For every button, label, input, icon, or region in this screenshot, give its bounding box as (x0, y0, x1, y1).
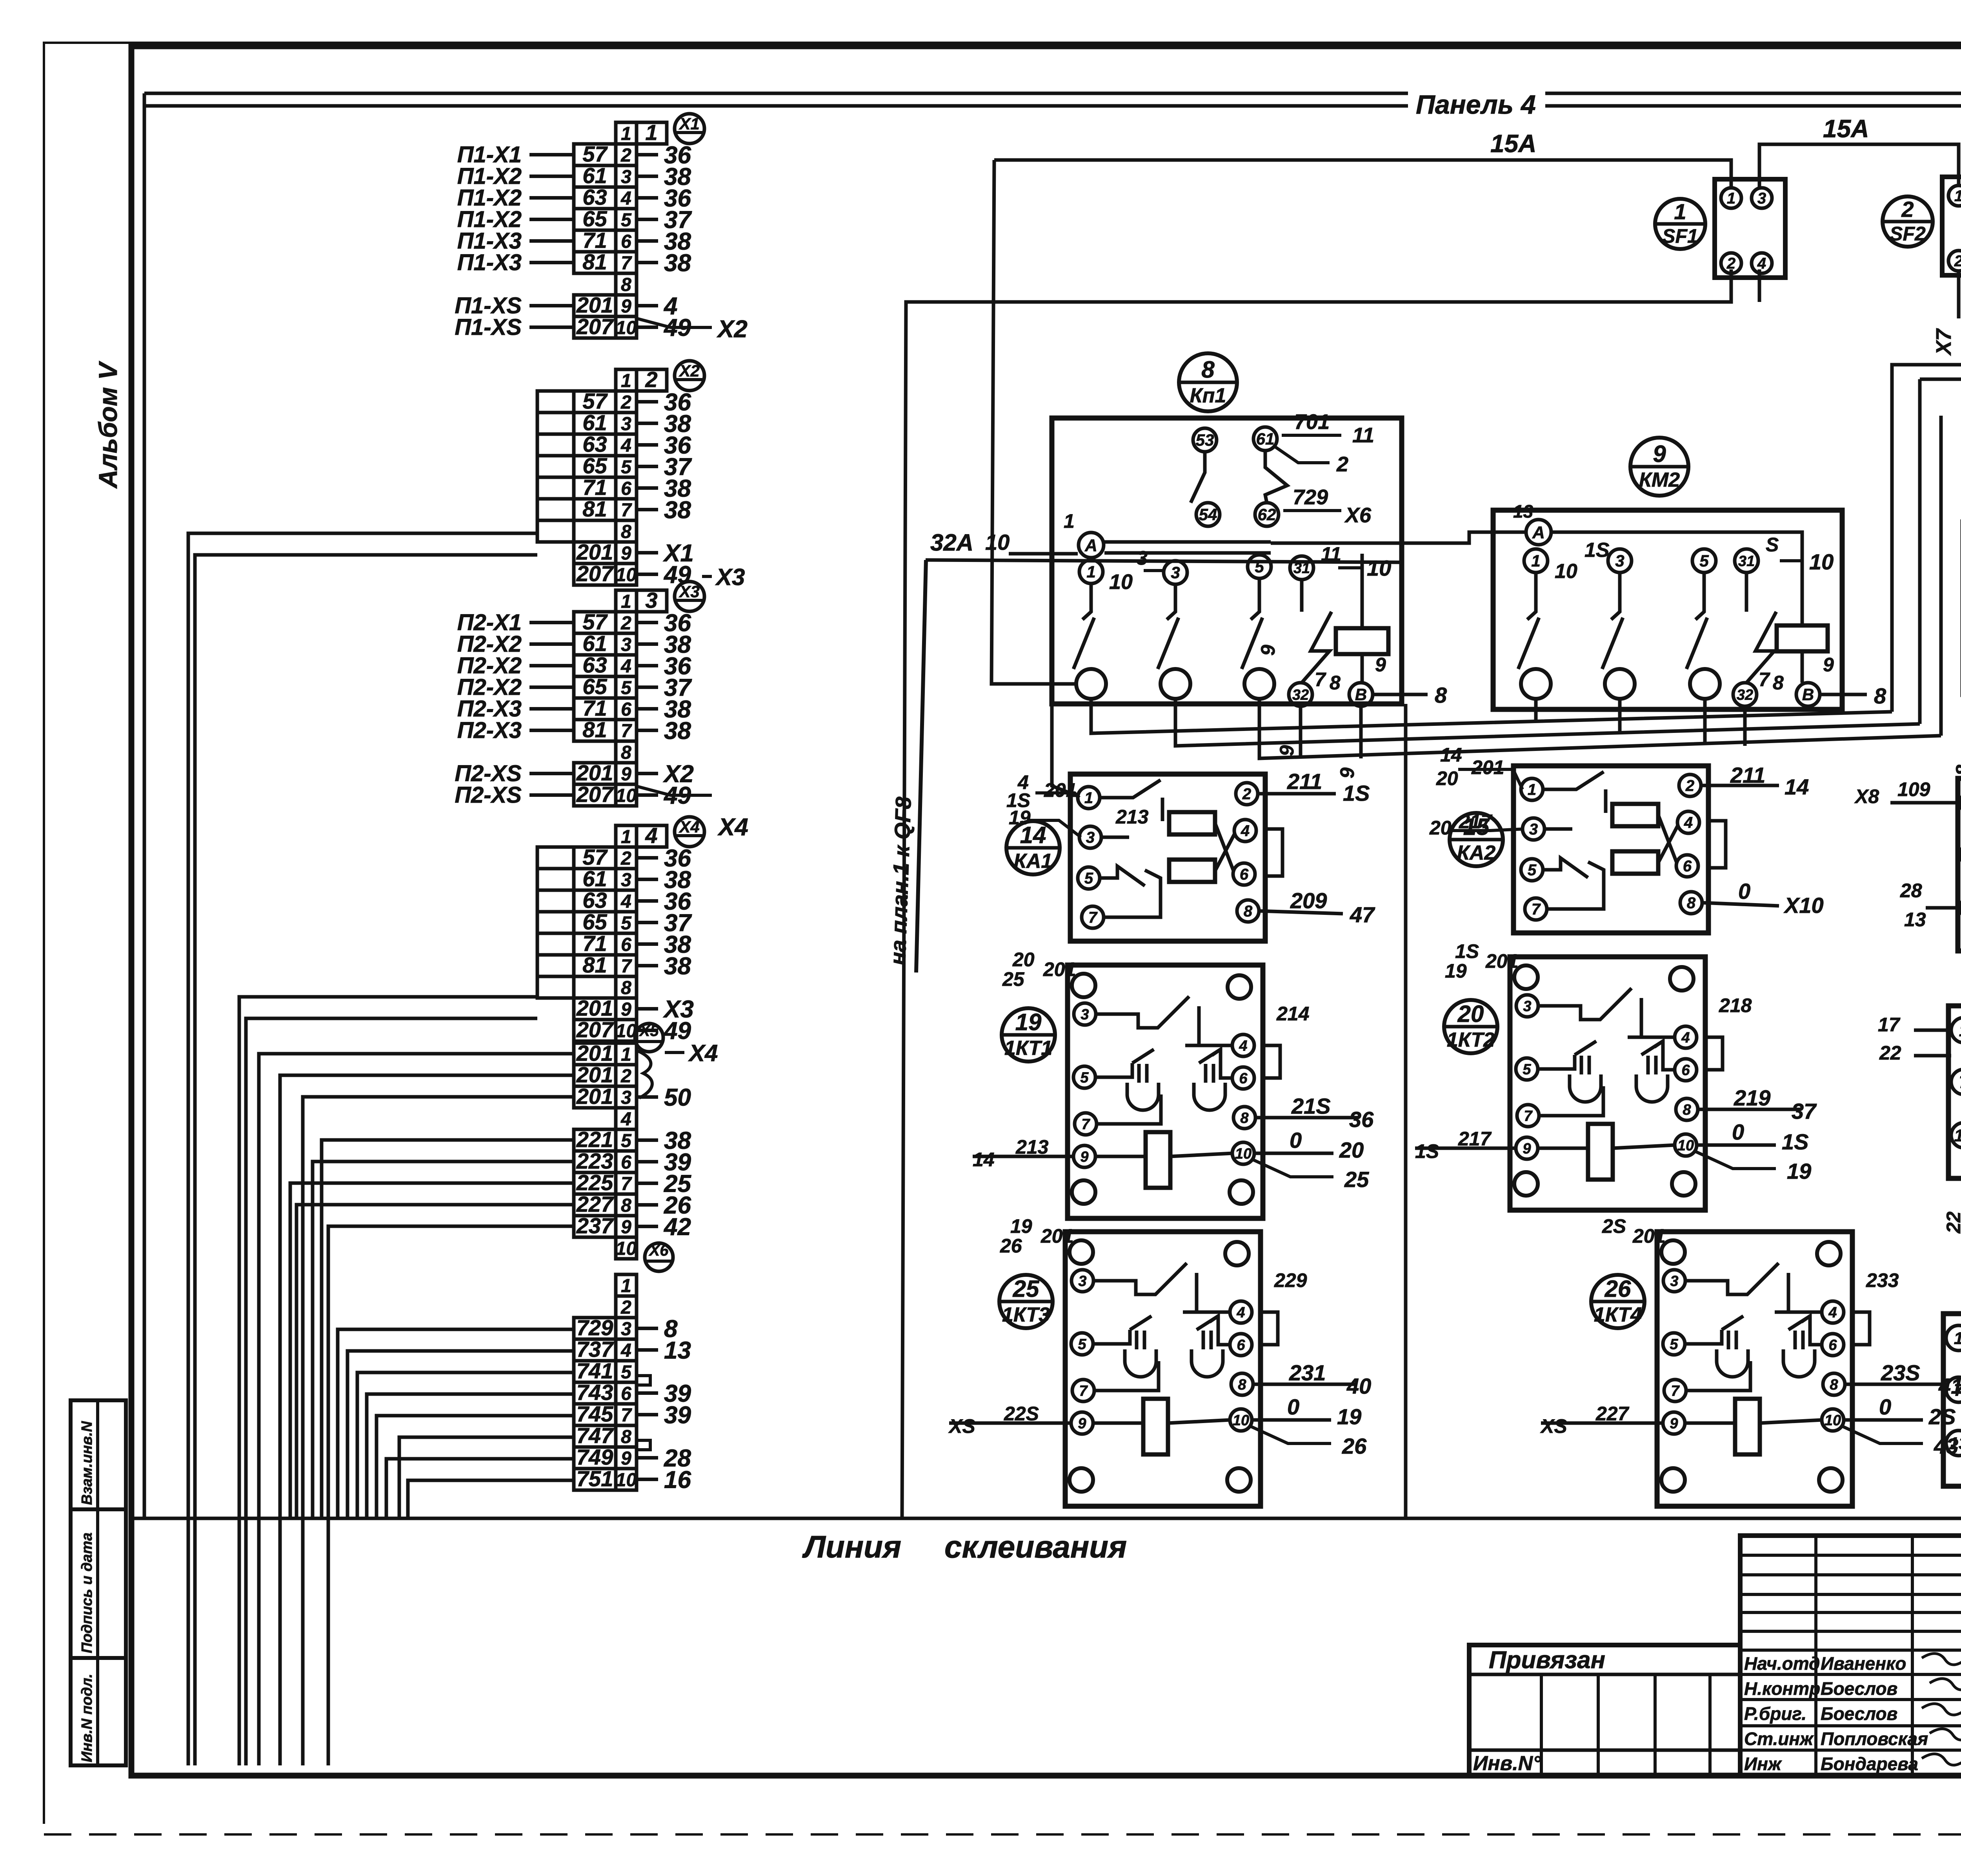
svg-text:3: 3 (621, 1319, 631, 1340)
svg-text:КМ2: КМ2 (1639, 469, 1680, 491)
svg-text:X2: X2 (717, 316, 748, 343)
svg-text:201: 201 (1471, 756, 1504, 778)
svg-text:3: 3 (1081, 1006, 1089, 1023)
svg-text:5: 5 (621, 1362, 632, 1383)
svg-text:14: 14 (973, 1149, 995, 1171)
wire KM2 bottom drop 1 (1534, 699, 1538, 722)
1KT3 external labels (948, 1215, 1371, 1458)
svg-text:13: 13 (1949, 1434, 1961, 1453)
svg-text:10: 10 (616, 1238, 637, 1259)
svg-text:5: 5 (621, 913, 632, 934)
svg-text:6: 6 (621, 478, 631, 499)
KM1 node A (1079, 533, 1104, 558)
wire X6 row4 (347, 1351, 574, 1518)
svg-text:3: 3 (1086, 829, 1095, 846)
svg-text:8: 8 (1874, 684, 1886, 708)
svg-text:X4: X4 (717, 814, 748, 841)
svg-text:63: 63 (582, 432, 607, 456)
svg-text:5: 5 (621, 457, 632, 478)
designator circle 20/1КТ2 (1444, 1000, 1497, 1053)
svg-text:3: 3 (1137, 547, 1148, 569)
wire 1KT1 pin9 feed (973, 1155, 1073, 1158)
svg-text:Кп1: Кп1 (1190, 384, 1226, 407)
svg-text:Боеслов: Боеслов (1821, 1678, 1897, 1699)
svg-text:2: 2 (620, 392, 631, 413)
svg-text:65: 65 (582, 453, 607, 478)
svg-text:9: 9 (621, 1217, 631, 1238)
svg-text:8: 8 (621, 978, 631, 998)
svg-text:1КТ1: 1КТ1 (1004, 1037, 1052, 1060)
svg-text:XS: XS (948, 1415, 975, 1437)
svg-text:7: 7 (1524, 1108, 1533, 1124)
svg-text:201: 201 (576, 996, 613, 1020)
svg-text:3: 3 (645, 588, 657, 613)
svg-text:751: 751 (577, 1466, 613, 1491)
svg-text:9: 9 (621, 296, 631, 317)
svg-text:1: 1 (621, 371, 631, 391)
svg-text:15А: 15А (1823, 115, 1869, 143)
KM2 coil (1777, 625, 1828, 651)
svg-text:81: 81 (582, 717, 607, 742)
X3 row9 branch to X4 (637, 786, 712, 795)
wire bus X2 bracket lower (195, 555, 537, 1765)
svg-text:4: 4 (1684, 814, 1693, 831)
wire X5 row7 (290, 1183, 574, 1518)
wire X5 row6 (313, 1162, 574, 1518)
svg-text:0: 0 (1738, 879, 1750, 903)
svg-text:КА2: КА2 (1457, 842, 1496, 864)
svg-text:13: 13 (1904, 909, 1926, 931)
svg-text:701: 701 (1294, 410, 1330, 434)
svg-text:7: 7 (1959, 1073, 1961, 1092)
svg-text:8: 8 (1952, 765, 1961, 776)
svg-text:1: 1 (1674, 199, 1686, 224)
svg-text:3: 3 (621, 870, 631, 891)
svg-text:8: 8 (1773, 672, 1784, 694)
svg-text:10: 10 (616, 318, 637, 338)
svg-text:22: 22 (1879, 1042, 1901, 1064)
svg-text:Ст.инж: Ст.инж (1744, 1729, 1814, 1749)
svg-text:8: 8 (1830, 1376, 1838, 1393)
svg-text:8: 8 (1238, 1376, 1246, 1393)
svg-text:1S: 1S (1415, 1140, 1439, 1162)
relay 2-K10 box (1943, 1314, 1961, 1486)
svg-text:1: 1 (621, 1276, 631, 1296)
svg-text:10: 10 (616, 565, 637, 585)
wire SF1 bottom long drop (902, 269, 1731, 1518)
svg-text:Панель 4: Панель 4 (1416, 90, 1536, 120)
svg-text:5: 5 (1078, 1336, 1086, 1352)
svg-text:5: 5 (1699, 552, 1709, 570)
svg-text:X4: X4 (679, 818, 699, 836)
svg-text:15А: 15А (1490, 129, 1536, 158)
glue line (линия склеивания) (131, 1517, 1961, 1520)
svg-text:0: 0 (1879, 1394, 1891, 1419)
svg-text:2: 2 (1954, 253, 1961, 270)
wire bus 32A (926, 560, 1400, 562)
svg-text:207: 207 (576, 314, 614, 339)
binding table (Привязан) (1469, 1645, 1740, 1775)
svg-text:25: 25 (1344, 1167, 1369, 1192)
svg-text:71: 71 (582, 228, 607, 253)
svg-text:8: 8 (1201, 356, 1215, 383)
svg-text:201: 201 (576, 540, 613, 564)
svg-text:47: 47 (1350, 902, 1375, 927)
svg-text:1: 1 (1954, 187, 1961, 205)
svg-text:741: 741 (577, 1358, 613, 1383)
svg-text:3: 3 (1757, 190, 1766, 207)
svg-text:65: 65 (582, 206, 607, 231)
svg-text:14: 14 (1440, 744, 1462, 766)
svg-text:1S: 1S (1584, 539, 1610, 562)
KM1 internal bus double (1104, 540, 1271, 544)
svg-text:6: 6 (621, 1383, 631, 1404)
svg-text:X5: X5 (639, 1022, 659, 1040)
wire 2K6 pin1 feed (1914, 1029, 1951, 1032)
svg-text:71: 71 (582, 931, 607, 956)
wire KM1 bottom exit 2 (1175, 699, 1920, 746)
svg-text:71: 71 (582, 475, 607, 500)
svg-text:П1-Х3: П1-Х3 (457, 250, 522, 275)
svg-text:207: 207 (576, 561, 614, 586)
svg-text:1: 1 (1959, 1021, 1961, 1040)
wire 1KT2 pin10 out (1697, 1143, 1776, 1147)
wire X5 row1 (259, 1054, 574, 1765)
svg-text:2: 2 (620, 145, 631, 166)
svg-text:32: 32 (1737, 687, 1753, 703)
svg-text:5: 5 (621, 210, 632, 231)
svg-text:9: 9 (621, 1448, 631, 1469)
wire KA2 pin3 feed (1451, 829, 1524, 831)
svg-text:склеивания: склеивания (944, 1529, 1127, 1564)
svg-text:1: 1 (621, 1044, 631, 1065)
svg-text:20: 20 (1339, 1138, 1364, 1162)
wire KM1 bottom exit 3 (1259, 699, 1941, 758)
svg-text:211: 211 (1287, 769, 1322, 794)
wire KA1 pin8 out (1259, 911, 1343, 914)
svg-text:61: 61 (582, 410, 607, 435)
svg-text:4: 4 (620, 891, 631, 912)
svg-text:16: 16 (664, 1467, 691, 1494)
designator circle 1/SF1 (1655, 199, 1705, 249)
terminal block X4 (574, 817, 704, 1045)
wire 2K1 pin13 feed (1926, 906, 1961, 910)
2K1 labels (1854, 719, 1961, 991)
svg-text:Н.контр: Н.контр (1744, 1678, 1820, 1699)
svg-text:Р.бриг.: Р.бриг. (1744, 1703, 1806, 1724)
svg-text:4: 4 (1681, 1029, 1690, 1046)
svg-text:3: 3 (621, 167, 631, 187)
svg-text:Инв.N°: Инв.N° (1473, 1752, 1541, 1775)
svg-text:1КТ4: 1КТ4 (1594, 1303, 1642, 1326)
wire X6 row3 (338, 1329, 574, 1518)
svg-text:201: 201 (576, 1041, 613, 1065)
svg-text:207: 207 (576, 782, 614, 807)
svg-text:Бондарева: Бондарева (1821, 1754, 1918, 1774)
time relay 1KT1 box (1068, 965, 1280, 1218)
svg-text:7: 7 (1088, 909, 1098, 926)
svg-text:0: 0 (1287, 1394, 1299, 1419)
wire X5 row5 (322, 1140, 574, 1518)
svg-text:61: 61 (582, 866, 607, 891)
svg-text:5: 5 (621, 1131, 632, 1151)
wire 2K6 pin2 feed (1914, 1054, 1951, 1058)
svg-text:57: 57 (582, 609, 608, 634)
svg-text:X4: X4 (688, 1040, 718, 1066)
svg-text:Иваненко: Иваненко (1821, 1653, 1906, 1674)
svg-text:38: 38 (664, 497, 691, 524)
KM1 coil (1336, 628, 1388, 654)
svg-text:П2-Х3: П2-Х3 (457, 718, 522, 743)
svg-text:1: 1 (1528, 781, 1536, 798)
svg-text:5: 5 (1528, 862, 1537, 879)
svg-text:19: 19 (1337, 1404, 1361, 1429)
svg-text:743: 743 (577, 1380, 613, 1405)
wire 1KT4 pin10 branch (1842, 1426, 1923, 1443)
panel boundary top outer (144, 92, 1961, 95)
svg-text:20: 20 (1429, 817, 1452, 839)
designator circle 2/SF2 (1883, 196, 1933, 247)
svg-text:81: 81 (582, 496, 607, 521)
wire KM1 B down (1359, 706, 1363, 758)
svg-text:38: 38 (664, 250, 691, 277)
svg-text:Боеслов: Боеслов (1821, 1703, 1897, 1724)
wire mid drop to glue line A (1404, 704, 1408, 1518)
svg-text:2: 2 (1901, 197, 1914, 222)
KM2 pole 5 (1692, 549, 1716, 573)
svg-text:201: 201 (576, 760, 613, 785)
svg-text:X10: X10 (1783, 893, 1824, 918)
svg-text:4: 4 (620, 656, 631, 677)
svg-text:1S: 1S (1343, 781, 1370, 805)
wire X6 row8 (399, 1437, 574, 1518)
svg-text:26: 26 (1000, 1235, 1022, 1257)
wire 1KT3 pin10 out (1252, 1418, 1331, 1422)
1KT4 external labels (1540, 1215, 1961, 1458)
svg-text:4: 4 (1828, 1304, 1837, 1321)
svg-text:A: A (1084, 536, 1097, 555)
svg-text:53: 53 (1196, 431, 1214, 449)
svg-text:0: 0 (1732, 1120, 1744, 1144)
svg-text:9: 9 (621, 999, 631, 1020)
svg-text:54: 54 (1199, 505, 1217, 524)
svg-text:3: 3 (621, 1087, 631, 1108)
svg-text:10: 10 (1109, 570, 1133, 594)
wire riser right A (1918, 379, 1922, 724)
svg-text:19: 19 (1445, 960, 1467, 982)
svg-text:2: 2 (645, 367, 657, 392)
svg-text:1: 1 (621, 591, 631, 612)
svg-text:A: A (1532, 523, 1545, 542)
svg-text:5: 5 (1080, 1069, 1089, 1086)
svg-text:19: 19 (1787, 1159, 1811, 1183)
wire 1KT3 pin9 feed (949, 1422, 1071, 1425)
svg-text:65: 65 (582, 674, 607, 699)
X6 row8 hook (637, 1440, 650, 1450)
wire KM2 pin32 down (1743, 706, 1747, 746)
contactor KM2 box (1493, 510, 1842, 709)
wire X5 row3 (303, 1097, 574, 1765)
svg-text:B: B (1802, 685, 1814, 704)
wire X6 row6 (367, 1394, 574, 1518)
KM2 node A (1526, 520, 1551, 545)
svg-text:71: 71 (582, 696, 607, 720)
svg-text:6: 6 (1240, 866, 1249, 883)
wire KA2 pin1 feed (1458, 769, 1523, 789)
svg-text:7: 7 (1081, 1116, 1090, 1133)
X6 row5 hook (637, 1376, 650, 1385)
relay KA2 box (1513, 766, 1726, 933)
wire bus X4 bracket lower (246, 1018, 537, 1765)
svg-text:2: 2 (1726, 255, 1735, 272)
wire X5 row9 (328, 1226, 574, 1765)
svg-text:221: 221 (576, 1127, 613, 1152)
svg-text:201: 201 (576, 1084, 613, 1109)
circuit breaker SF1 (1715, 179, 1785, 278)
KM2 pole 1 (1524, 549, 1548, 573)
KM1 pole 5 (1248, 555, 1271, 578)
wire X6 row9 (386, 1459, 574, 1518)
svg-text:81: 81 (582, 953, 607, 977)
svg-text:23S: 23S (1881, 1360, 1920, 1385)
svg-text:8: 8 (1435, 683, 1447, 707)
svg-text:2: 2 (1242, 785, 1251, 803)
KM2 pole 3 (1608, 549, 1632, 573)
svg-text:3: 3 (1529, 821, 1538, 838)
2-K6 labels (1878, 1001, 1961, 1249)
svg-text:13: 13 (664, 1337, 691, 1364)
svg-text:22: 22 (1943, 1211, 1961, 1234)
1KT1 external labels (973, 949, 1374, 1192)
svg-text:10: 10 (1677, 1137, 1694, 1154)
svg-text:10: 10 (1555, 560, 1577, 583)
svg-text:20: 20 (1436, 767, 1458, 789)
svg-text:237: 237 (576, 1213, 614, 1238)
designator circle 15/КА2 (1450, 813, 1503, 866)
svg-text:6: 6 (1239, 1070, 1248, 1087)
wire 1KT3 pin8 out (1253, 1383, 1356, 1386)
svg-text:X2: X2 (679, 362, 699, 380)
KM1 pole 3 (1164, 561, 1187, 584)
svg-text:2: 2 (620, 848, 631, 869)
svg-text:7: 7 (621, 253, 632, 274)
wire bus X2 bracket upper (188, 533, 537, 1765)
svg-text:3: 3 (1078, 1273, 1086, 1289)
svg-text:729: 729 (577, 1315, 613, 1340)
wire KM1 corner to KA1 pin1 (1052, 704, 1078, 796)
svg-text:X8: X8 (1854, 785, 1879, 807)
svg-text:5: 5 (1084, 870, 1093, 887)
svg-text:S: S (1766, 534, 1779, 556)
svg-text:1: 1 (1064, 510, 1075, 532)
wire 1KT1 pin10 out (1254, 1152, 1333, 1155)
svg-text:X3: X3 (715, 564, 745, 590)
svg-text:Взам.инв.N: Взам.инв.N (79, 1421, 95, 1505)
designator circle 14/КА1 (1006, 821, 1060, 874)
wire 1KT1 pin10 branch (1253, 1160, 1333, 1177)
wire KA1 pin2 out (1258, 792, 1336, 796)
svg-text:8: 8 (1240, 1110, 1249, 1126)
svg-text:7: 7 (621, 1174, 632, 1194)
svg-text:9: 9 (621, 764, 631, 785)
svg-text:1: 1 (645, 120, 657, 145)
svg-text:4: 4 (645, 823, 657, 848)
svg-text:50: 50 (664, 1084, 691, 1111)
svg-text:1: 1 (1727, 190, 1735, 207)
svg-text:209: 209 (1290, 888, 1327, 913)
wire KM1 pin32 down (1299, 706, 1302, 758)
designator circle 26/1КТ4 (1591, 1275, 1644, 1328)
svg-text:10: 10 (616, 785, 637, 806)
wire 1KT4 pin9 feed (1541, 1422, 1663, 1425)
svg-text:201: 201 (576, 293, 613, 317)
time relay 1KT4 box (1657, 1232, 1870, 1506)
off-page arrow to QF8 (916, 560, 926, 973)
svg-text:1: 1 (1531, 552, 1540, 570)
svg-text:2: 2 (1336, 453, 1348, 476)
svg-text:218: 218 (1719, 994, 1752, 1016)
svg-text:4: 4 (620, 1340, 631, 1361)
svg-text:6: 6 (1828, 1337, 1837, 1353)
svg-text:745: 745 (577, 1402, 613, 1426)
svg-text:XS: XS (1540, 1415, 1567, 1437)
designator circle 8/КМ1 (1179, 353, 1237, 411)
svg-text:8: 8 (1683, 1102, 1691, 1118)
svg-text:SF2: SF2 (1890, 223, 1926, 245)
svg-text:3: 3 (1615, 552, 1624, 570)
wire KA1 pin1 feed a (1035, 793, 1079, 798)
svg-text:9: 9 (1653, 441, 1666, 467)
svg-text:201: 201 (576, 1062, 613, 1087)
KM2 A internal link (1551, 532, 1802, 625)
designator circle 19/1КТ1 (1002, 1008, 1055, 1062)
wire KM1 bottom exit 1 (1091, 699, 1892, 733)
svg-text:1: 1 (621, 124, 631, 144)
svg-text:25: 25 (1002, 968, 1025, 990)
svg-text:3: 3 (1523, 998, 1531, 1014)
svg-text:231: 231 (1289, 1360, 1326, 1385)
svg-text:26: 26 (1604, 1276, 1631, 1302)
svg-text:747: 747 (577, 1423, 614, 1448)
svg-text:109: 109 (1897, 778, 1930, 800)
svg-text:3: 3 (1670, 1273, 1678, 1289)
svg-text:8: 8 (621, 1427, 631, 1447)
svg-text:7: 7 (1315, 669, 1326, 691)
svg-text:57: 57 (582, 389, 608, 413)
svg-text:0: 0 (1290, 1128, 1302, 1153)
svg-text:4: 4 (620, 1109, 631, 1130)
svg-text:31: 31 (1738, 553, 1755, 569)
KM2 pole 31-32 (1735, 549, 1758, 573)
svg-text:2: 2 (620, 613, 631, 634)
svg-text:6: 6 (1237, 1337, 1245, 1353)
svg-text:28: 28 (1900, 880, 1922, 902)
panel label (1408, 80, 1545, 120)
svg-text:2: 2 (620, 1297, 631, 1318)
svg-text:32: 32 (1292, 687, 1309, 703)
svg-text:6: 6 (621, 934, 631, 955)
svg-text:63: 63 (582, 888, 607, 913)
wire bracket of X2 (537, 391, 574, 542)
svg-text:9: 9 (1080, 1149, 1088, 1165)
X5 rows brace (638, 1051, 652, 1098)
svg-text:Подпись и дата: Подпись и дата (79, 1532, 95, 1653)
svg-text:10: 10 (1233, 1412, 1249, 1429)
svg-text:Альбом V: Альбом V (93, 361, 122, 489)
svg-text:4: 4 (1241, 822, 1250, 840)
svg-text:6: 6 (621, 231, 631, 252)
wire KA2 pin8 out (1702, 903, 1779, 906)
